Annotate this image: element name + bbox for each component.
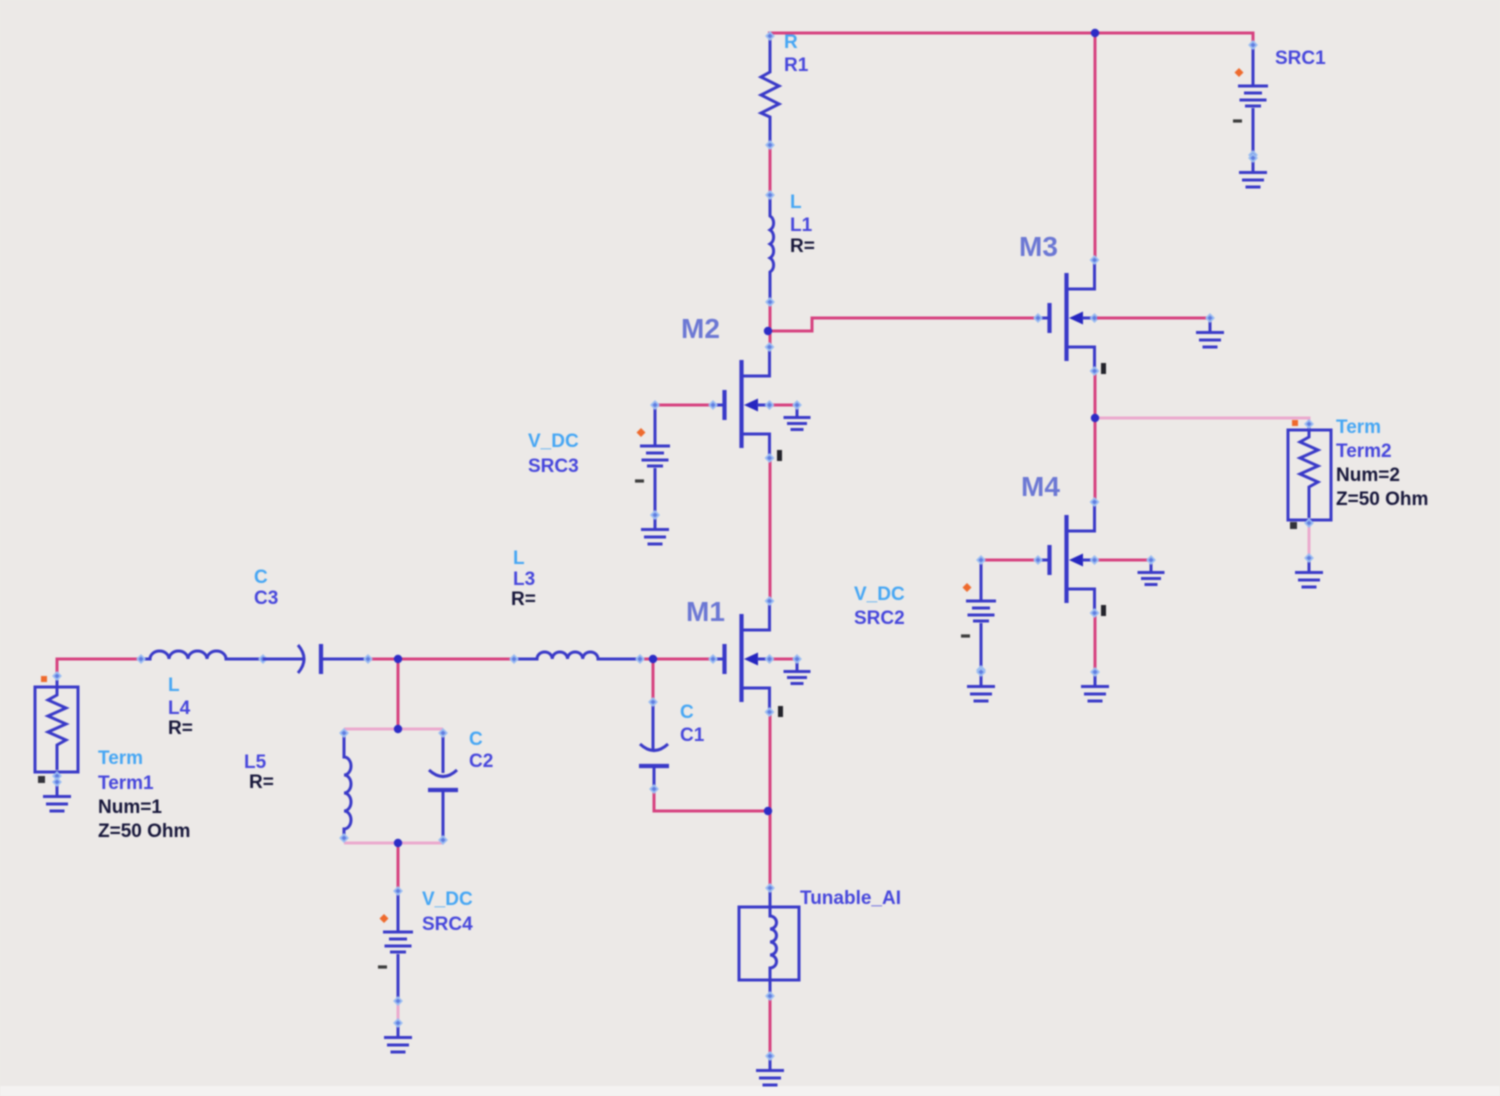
svg-text:Tunable_AI: Tunable_AI xyxy=(800,888,901,909)
capacitor C3 xyxy=(263,644,373,674)
svg-text:Z=50 Ohm: Z=50 Ohm xyxy=(98,821,190,842)
svg-text:R=: R= xyxy=(249,772,274,793)
svg-text:L5: L5 xyxy=(244,752,267,773)
node junction tank bottom xyxy=(394,839,402,847)
svg-text:M1: M1 xyxy=(686,596,725,627)
svg-text:C: C xyxy=(680,702,694,723)
wire SRC3 to M2 gate xyxy=(655,404,714,407)
port Term1 xyxy=(35,671,78,783)
svg-text:M4: M4 xyxy=(1021,471,1060,502)
wire M1 bulk to ground xyxy=(771,658,798,661)
wire Term1 to ground xyxy=(56,775,59,788)
wire M4 source to ground xyxy=(1094,614,1097,673)
svg-text:L3: L3 xyxy=(513,569,535,590)
svg-text:L: L xyxy=(168,675,180,696)
voltage source SRC1 xyxy=(1233,40,1268,160)
svg-text:R=: R= xyxy=(790,236,815,257)
wire SRC4 to ground xyxy=(397,1000,400,1026)
svg-text:Term1: Term1 xyxy=(98,773,154,794)
wire SRC2 to M4 gate xyxy=(983,559,1040,562)
svg-text:SRC2: SRC2 xyxy=(854,608,905,629)
node junction M1 source xyxy=(764,807,772,815)
wire tank to SRC4 xyxy=(397,843,400,892)
tunable inductor Tunable_AI xyxy=(739,883,799,1001)
inductor L1 xyxy=(765,190,775,307)
svg-text:L: L xyxy=(513,548,525,569)
ground SRC4 xyxy=(384,1018,412,1052)
resistor R1 xyxy=(761,31,779,150)
ground Tunable_AI xyxy=(756,1051,784,1085)
node junction C3/L3 xyxy=(394,655,402,663)
svg-text:Term: Term xyxy=(98,748,143,769)
svg-text:V_DC: V_DC xyxy=(528,431,579,452)
capacitor C2 xyxy=(428,728,458,845)
ground SRC2 xyxy=(967,667,995,701)
wire R1 to L1 xyxy=(769,146,772,194)
svg-text:L1: L1 xyxy=(790,215,813,236)
svg-text:SRC1: SRC1 xyxy=(1275,48,1326,69)
transistor M2 xyxy=(708,342,774,463)
port Term2 xyxy=(1288,419,1331,529)
svg-text:R=: R= xyxy=(168,718,193,739)
transistor M3 xyxy=(1033,255,1099,376)
svg-text:L: L xyxy=(790,192,802,213)
voltage source SRC2 xyxy=(961,555,996,675)
wire M2 source to M1 drain xyxy=(769,460,772,602)
inductor L4 xyxy=(136,651,268,664)
svg-text:Term2: Term2 xyxy=(1336,441,1392,462)
wire L3 to M1 gate xyxy=(644,658,714,661)
ground Term1 xyxy=(43,777,71,811)
ground Term2 xyxy=(1295,553,1323,587)
wire C3 to L3 xyxy=(370,658,515,661)
svg-text:R1: R1 xyxy=(784,55,809,76)
svg-text:C1: C1 xyxy=(680,725,705,746)
svg-text:L4: L4 xyxy=(168,698,191,719)
wire M4 bulk to ground xyxy=(1097,559,1152,562)
wire output node to Term2 xyxy=(1097,418,1309,428)
wire M2 bulk to ground xyxy=(771,404,798,407)
wire top rail VDD xyxy=(768,33,1253,46)
wire L1 to M2 drain node xyxy=(769,303,772,348)
transistor M4 xyxy=(1033,497,1099,618)
pin label M1 source xyxy=(778,706,783,717)
capacitor C1 xyxy=(639,697,669,794)
wire tank top rail xyxy=(344,728,443,731)
ground M4 source xyxy=(1081,667,1109,701)
svg-text:Num=2: Num=2 xyxy=(1336,465,1400,486)
wire C1 bottom to M1 source node xyxy=(654,788,768,811)
transistor M1 xyxy=(708,596,774,717)
wire node to C1 xyxy=(652,659,655,703)
ground M4 bulk xyxy=(1138,555,1165,584)
svg-text:Num=1: Num=1 xyxy=(98,797,162,818)
wire M3 bulk to ground xyxy=(1097,317,1211,320)
svg-text:C: C xyxy=(469,729,483,750)
ground M1 bulk xyxy=(784,654,811,683)
wire tank bottom rail xyxy=(344,842,443,845)
svg-text:C2: C2 xyxy=(469,751,493,772)
ground M3 bulk xyxy=(1196,313,1224,347)
node junction tank top xyxy=(394,725,402,733)
inductor L5 xyxy=(339,728,351,843)
svg-text:R=: R= xyxy=(511,589,536,610)
svg-text:SRC3: SRC3 xyxy=(528,456,579,477)
voltage source SRC3 xyxy=(635,400,670,520)
svg-text:V_DC: V_DC xyxy=(422,889,473,910)
svg-text:C: C xyxy=(254,567,268,588)
svg-text:M2: M2 xyxy=(681,313,720,344)
svg-text:R: R xyxy=(784,32,798,53)
node junction M2 drain xyxy=(764,327,772,335)
wire M2 drain to M3 gate xyxy=(770,318,1040,331)
wire node down to tank xyxy=(397,659,400,730)
wire Term2 to ground xyxy=(1308,526,1311,556)
voltage source SRC4 xyxy=(378,886,413,1006)
inductor L3 xyxy=(509,652,645,664)
wire M1 source down to Tunable_AI xyxy=(769,710,772,888)
node junction output xyxy=(1091,414,1099,422)
wire VDD to M3 drain xyxy=(1094,33,1097,261)
svg-text:SRC4: SRC4 xyxy=(422,914,473,935)
pin label M3 source xyxy=(1101,363,1106,374)
wire M3 source to M4 drain xyxy=(1094,370,1097,503)
wire Term1 to L4 xyxy=(57,659,141,674)
svg-text:C3: C3 xyxy=(254,588,278,609)
ground M2 bulk xyxy=(784,400,811,429)
ground SRC1 xyxy=(1239,153,1267,187)
svg-text:M3: M3 xyxy=(1019,231,1058,262)
ground SRC3 xyxy=(641,510,669,544)
pin label M2 source xyxy=(777,450,782,461)
node junction VDD/M3 xyxy=(1091,29,1099,37)
svg-text:Z=50 Ohm: Z=50 Ohm xyxy=(1336,489,1428,510)
node junction L3/C1/M1 gate xyxy=(649,655,657,663)
svg-text:V_DC: V_DC xyxy=(854,584,905,605)
svg-text:Term: Term xyxy=(1336,417,1381,438)
wire Tunable_AI bottom to ground xyxy=(769,997,772,1057)
pin label M4 source xyxy=(1101,605,1106,616)
